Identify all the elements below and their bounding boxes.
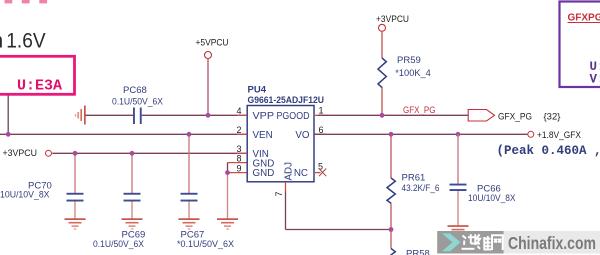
wire GFX_PG net (pin 1 to connector) (318, 114, 469, 116)
svg-text:{32}: {32} (544, 111, 561, 122)
svg-text:+1.8V_GFX: +1.8V_GFX (537, 130, 582, 141)
pin stub 1 (314, 114, 325, 116)
svg-text:PR59: PR59 (397, 55, 421, 66)
wire PC68 to VPP pin 4 (142, 114, 247, 116)
off-page connector arrow GFX_PG {32} (468, 110, 560, 123)
pin stub 3 (237, 152, 247, 154)
svg-text:Chinafix.com: Chinafix.com (508, 233, 596, 253)
svg-text:VPP: VPP (253, 111, 275, 122)
off-page box U:E3A (0, 56, 75, 94)
ground (PC66) (448, 225, 469, 234)
capacitor PC66 (450, 134, 517, 225)
svg-text:7: 7 (274, 191, 284, 196)
wire from U:E3A box down to VEN net (7, 96, 9, 135)
svg-text:NC: NC (294, 168, 308, 179)
svg-text:8: 8 (237, 154, 242, 164)
capacitor PC68 (112, 85, 164, 124)
svg-text:(Peak 0.460A ,.: (Peak 0.460A ,. (497, 144, 600, 158)
junction node (box/VEN) (6, 132, 11, 137)
op-amp/regulator U: PU4 G9661-25ADJF12U (247, 85, 324, 182)
svg-text:n: n (0, 29, 3, 52)
svg-text:2: 2 (237, 125, 242, 135)
capacitor PC70 (0, 153, 84, 218)
capacitor PC69 (93, 153, 145, 250)
CJK glyph (wei) (477, 234, 492, 249)
power +3VPCU (top right) (376, 14, 409, 58)
wire ground to PC68 (86, 114, 134, 116)
CJK glyph (wang) (492, 235, 503, 250)
svg-text:+3VPCU: +3VPCU (376, 14, 409, 25)
svg-text:+3VPCU: +3VPCU (3, 148, 38, 159)
resistor PR61 43.2K/F_6 (387, 134, 440, 229)
svg-text:6: 6 (319, 125, 324, 135)
ground (PC67) (179, 218, 200, 229)
power +3VPCU (left) (3, 148, 248, 159)
junction node (PC66/VO) (456, 132, 461, 137)
svg-text:ADJ: ADJ (283, 162, 294, 181)
net label fragments (top edge, cut) (5, 0, 48, 3)
junction node (PR61/VO) (389, 132, 394, 137)
svg-text:U:E3A: U:E3A (17, 78, 62, 95)
svg-text:PR58: PR58 (406, 249, 430, 255)
junction node (GND pins) (225, 170, 230, 175)
svg-text:G9661-25ADJF12U: G9661-25ADJF12U (248, 95, 325, 105)
svg-text:VEN: VEN (253, 130, 273, 141)
wire ADJ pin 7 down and right (286, 182, 392, 230)
svg-text:PC68: PC68 (123, 85, 147, 96)
pin stub 5 (NC) (314, 172, 321, 174)
CJK glyph (xun) (462, 234, 476, 249)
ground (GND pins) (217, 218, 238, 229)
svg-text:10U/10V_8X: 10U/10V_8X (468, 193, 516, 204)
junction node (+5VPCU/VPP net) (206, 113, 211, 118)
chevron logo (442, 234, 461, 252)
wire GND pins 8/9 to ground (228, 163, 248, 219)
off-page box top right (560, 2, 600, 88)
svg-text:PU4: PU4 (248, 85, 267, 96)
svg-text:0.1U/50V_6X: 0.1U/50V_6X (93, 239, 145, 250)
text "n 1.6V" (cut at left) (0, 29, 46, 52)
svg-text:+5VPCU: +5VPCU (196, 38, 229, 49)
svg-text:*0.1U/50V_6X: *0.1U/50V_6X (177, 239, 235, 250)
ground (sideways, PC68) (75, 106, 86, 125)
svg-text:0.1U/50V_6X: 0.1U/50V_6X (112, 97, 164, 108)
svg-text:VO: VO (295, 130, 310, 141)
svg-text:V:: V: (590, 73, 600, 87)
junction node (PC70/+3VPCU) (73, 151, 78, 156)
junction node (PC69/+3VPCU) (130, 151, 135, 156)
resistor PR59 *100K_4 (378, 55, 431, 115)
svg-text:*100K_4: *100K_4 (395, 68, 431, 79)
junction node (ADJ/PR61/PR58) (389, 227, 394, 232)
wire VO net (+1.8V_GFX) (314, 133, 527, 135)
power +1.8V_GFX (528, 130, 582, 141)
resistor PR58 (cut at bottom) (387, 230, 430, 255)
power +5VPCU (196, 38, 229, 116)
svg-text:43.2K/F_6: 43.2K/F_6 (402, 183, 440, 194)
svg-text:1.6V: 1.6V (6, 29, 45, 52)
pin stub 2 (237, 133, 247, 135)
pin stub 4 (237, 114, 247, 116)
svg-text:GFX_PG: GFX_PG (498, 111, 532, 122)
svg-text:9: 9 (237, 163, 242, 173)
pin stub 6 (314, 133, 325, 135)
svg-text:PGOOD: PGOOD (277, 111, 310, 122)
capacitor PC67 (177, 134, 235, 250)
wire VEN net (to pin 2) (0, 133, 247, 135)
ground (PC70) (65, 218, 86, 229)
junction node (PC67/VEN) (187, 132, 192, 137)
svg-text:10U/10V_8X: 10U/10V_8X (0, 190, 50, 201)
svg-text:GND: GND (253, 168, 275, 179)
svg-text:3: 3 (237, 144, 242, 154)
svg-text:GFX_PG: GFX_PG (403, 105, 436, 116)
svg-text:PR61: PR61 (402, 172, 426, 183)
ground (PC69) (122, 218, 143, 229)
no-connect X on pin 5 (319, 169, 326, 177)
svg-text:4: 4 (237, 106, 242, 116)
watermark bar (437, 231, 600, 254)
junction node (PR59/GFX_PG) (380, 113, 385, 118)
svg-text:1: 1 (319, 106, 324, 116)
